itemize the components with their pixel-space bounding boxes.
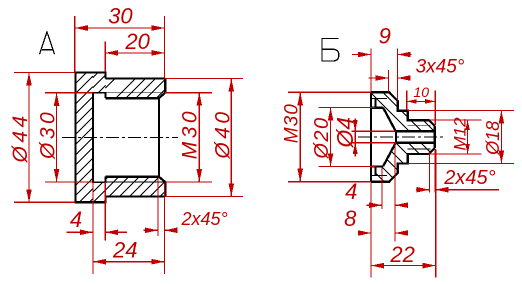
part B outer outline top xyxy=(371,92,435,126)
dim D20 extension lines xyxy=(319,107,376,109)
svg-text:20: 20 xyxy=(124,29,150,54)
dim D4 line xyxy=(354,119,356,157)
dim D44 line xyxy=(28,73,30,203)
dim D44 extension lines xyxy=(14,72,76,74)
part B mouth recess wall top xyxy=(375,98,377,107)
part A centerline xyxy=(62,136,178,138)
dim M12 line xyxy=(467,120,469,154)
svg-text:9: 9 xyxy=(379,24,391,49)
dim 3x45 line xyxy=(369,77,389,79)
svg-text:8: 8 xyxy=(344,206,357,231)
part B label letter xyxy=(322,39,339,61)
part B hatching top xyxy=(395,129,397,131)
dim D40 extension lines xyxy=(165,77,243,79)
part B small bore top line xyxy=(396,130,435,132)
svg-text:2x45°: 2x45° xyxy=(443,167,495,189)
part B small bore bottom line xyxy=(396,142,435,144)
svg-text:10: 10 xyxy=(413,84,429,100)
part B cone flank bottom xyxy=(383,143,396,167)
part B cone-to-bore edge line xyxy=(395,131,397,143)
dim M30 B extension lines xyxy=(288,91,371,93)
dim 20 extension line xyxy=(104,41,106,72)
part A thread chamfer bottom xyxy=(159,177,165,183)
dim D20 line xyxy=(330,108,332,167)
part A chamfer edge line across bore xyxy=(158,98,160,176)
part B outer outline bottom xyxy=(371,148,435,182)
dim D30 line xyxy=(56,93,58,182)
dim 4 B line xyxy=(367,204,383,206)
dim 20 line xyxy=(105,52,164,54)
dim 4 B extension lines xyxy=(381,168,383,210)
dim M30 extension lines xyxy=(165,92,212,94)
dim 2x45 chamfer A line xyxy=(144,229,158,231)
svg-text:24: 24 xyxy=(112,237,137,262)
part A label letter xyxy=(40,32,55,54)
part B M12 thread minor thin line bottom xyxy=(408,148,431,150)
part B M12 thread minor thin line top xyxy=(408,124,431,126)
svg-text:Ø18: Ø18 xyxy=(483,121,503,156)
part A body bottom edge xyxy=(105,195,165,197)
part B left face xyxy=(370,92,372,181)
part A thread minor line top xyxy=(105,97,158,99)
dim D30 extension lines xyxy=(45,92,94,94)
part A hatching top body wall xyxy=(105,78,115,88)
part B M30 thread minor thin line top xyxy=(371,97,387,99)
part B M30 thread minor thin line bottom xyxy=(371,175,387,177)
part A thread minor line bottom xyxy=(105,175,158,177)
part A right face xyxy=(164,78,166,93)
svg-text:2x45°: 2x45° xyxy=(180,209,227,229)
dim 4 groove line xyxy=(67,231,93,233)
dim 22 line xyxy=(371,265,436,267)
svg-text:30: 30 xyxy=(108,4,133,29)
part B hatching bottom xyxy=(370,180,373,183)
svg-text:Ø20: Ø20 xyxy=(311,116,333,159)
svg-text:M30: M30 xyxy=(179,108,202,159)
part A thread relief groove xyxy=(93,93,106,182)
part B seat bore top wall xyxy=(371,106,383,108)
part A hatching top groove strip xyxy=(93,73,98,78)
dim D4 extension lines xyxy=(352,130,396,132)
dim D18 line xyxy=(500,111,502,164)
dim 22 extension line xyxy=(435,150,437,278)
part A thread major thin line top xyxy=(105,92,165,94)
part A body top edge xyxy=(105,77,165,79)
dim M12 extension lines xyxy=(430,119,482,121)
svg-text:Ø40: Ø40 xyxy=(211,108,234,159)
svg-text:Ø44: Ø44 xyxy=(9,112,32,163)
dim 9 line xyxy=(352,54,371,56)
part B right face xyxy=(434,126,436,148)
dim 2x45 chamfer A extension lines xyxy=(157,178,159,236)
part A hatching left wall xyxy=(75,72,78,75)
svg-text:4: 4 xyxy=(345,179,357,204)
dim 30 line xyxy=(75,27,165,29)
part A hatching bottom groove strip xyxy=(93,182,103,192)
svg-text:3x45°: 3x45° xyxy=(416,57,465,78)
dim 2x45 chamfer B line xyxy=(416,189,430,191)
part B cone flank top xyxy=(383,108,396,132)
svg-text:Ø30: Ø30 xyxy=(36,109,59,160)
dim 8 line xyxy=(360,232,371,234)
dim D18 extension lines xyxy=(408,110,514,112)
dim 8 extension line xyxy=(370,183,372,278)
dim M30 line xyxy=(198,93,200,182)
dim 9 extension lines xyxy=(370,49,372,92)
part B mouth recess wall bottom xyxy=(375,166,377,175)
dim 24 extension line right xyxy=(164,198,166,275)
part B seat bore bottom wall xyxy=(371,165,383,167)
dim 10 line xyxy=(407,100,436,102)
part B centerline xyxy=(358,136,444,138)
part A thread chamfer top xyxy=(159,93,165,99)
dim 4 groove extension lines xyxy=(92,182,94,274)
part A outer outline xyxy=(76,73,106,203)
dim 30 extension lines xyxy=(74,16,76,72)
part A hatching bottom body wall xyxy=(105,177,108,180)
svg-text:Ø4: Ø4 xyxy=(332,117,358,149)
svg-text:M12: M12 xyxy=(451,117,470,151)
dim 10 extension lines xyxy=(406,91,408,110)
dim 2x45 chamfer B extension lines xyxy=(429,152,431,193)
dim 3x45 extension line xyxy=(388,70,390,92)
dim D40 line xyxy=(230,78,232,196)
dim 24 line xyxy=(93,261,165,263)
svg-text:22: 22 xyxy=(389,242,414,267)
svg-text:4: 4 xyxy=(70,207,82,232)
part A thread major thin line bottom xyxy=(105,181,165,183)
svg-text:M30: M30 xyxy=(281,103,302,143)
dim M30 B line xyxy=(299,92,301,181)
